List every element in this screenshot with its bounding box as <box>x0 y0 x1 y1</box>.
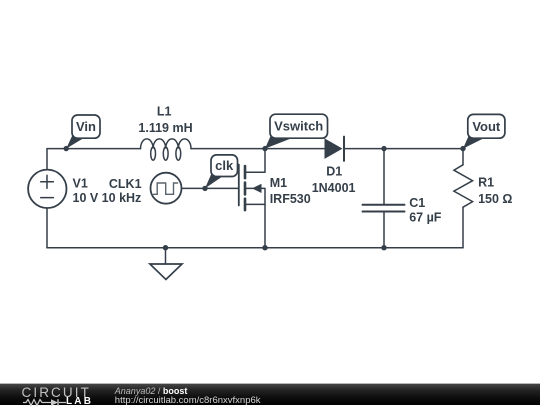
svg-text:67 µF: 67 µF <box>409 210 442 224</box>
wire top rail right: diode cathode to Vout node <box>344 148 463 150</box>
node C1 bottom junction dot <box>381 245 386 250</box>
net label Vout <box>463 114 505 148</box>
net label Vswitch <box>265 114 328 148</box>
svg-text:clk: clk <box>215 158 234 173</box>
inductor L1 <box>141 139 192 160</box>
svg-text:L1: L1 <box>157 105 172 119</box>
node Vswitch junction dot <box>262 146 267 151</box>
ground <box>150 248 182 280</box>
svg-text:1.119 mH: 1.119 mH <box>138 121 192 135</box>
wire left branch V1 bottom <box>46 209 48 248</box>
node M1 source junction dot <box>262 245 267 250</box>
clock source CLK1 <box>151 173 182 204</box>
wire top rail left: Vin node to inductor <box>47 148 141 150</box>
svg-text:D1: D1 <box>326 165 342 179</box>
footer url <box>115 395 261 406</box>
svg-text:Vswitch: Vswitch <box>274 119 323 134</box>
node C1 top junction dot <box>381 146 386 151</box>
svg-text:1N4001: 1N4001 <box>312 181 356 195</box>
voltage source V1 <box>28 170 66 208</box>
transistor M1 (NMOS) <box>239 149 265 248</box>
node Vout junction dot <box>460 146 465 151</box>
wire left branch V1 top <box>46 149 48 169</box>
svg-text:R1: R1 <box>478 176 494 190</box>
svg-text:V1: V1 <box>73 176 88 190</box>
capacitor C1 <box>363 149 405 248</box>
svg-text:C1: C1 <box>409 196 425 210</box>
svg-text:Vin: Vin <box>76 119 96 134</box>
node clk junction dot <box>202 186 207 191</box>
net label clk <box>205 155 238 189</box>
svg-text:CLK1: CLK1 <box>109 177 142 191</box>
svg-text:150 Ω: 150 Ω <box>478 192 512 206</box>
svg-text:M1: M1 <box>270 176 287 190</box>
svg-text:Vout: Vout <box>472 119 501 134</box>
diode D1 <box>325 137 345 161</box>
svg-text:IRF530: IRF530 <box>270 192 311 206</box>
node ground junction dot <box>163 245 168 250</box>
svg-text:10 V 10 kHz: 10 V 10 kHz <box>73 191 142 205</box>
node Vin junction dot <box>63 146 68 151</box>
footer title Ananya02 / boost <box>115 386 188 396</box>
resistor R1 <box>454 149 473 248</box>
wire bottom rail <box>47 247 463 249</box>
CircuitLab logo schematic squiggle and LAB <box>22 398 94 407</box>
wire CLK1 to gate <box>182 187 239 189</box>
net label Vin <box>66 115 100 149</box>
wire top rail middle: inductor to diode anode <box>191 148 325 150</box>
CircuitLab logo text <box>22 385 91 400</box>
